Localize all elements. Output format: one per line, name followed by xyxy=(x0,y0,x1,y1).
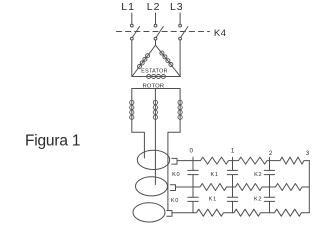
contactor K4 pole 1 blade xyxy=(133,27,140,38)
wire L2 top lead xyxy=(155,13,157,24)
rotor winding phase 3 xyxy=(178,89,182,133)
brush 1 xyxy=(172,158,177,164)
rotor top bar xyxy=(132,88,180,90)
contact K2 (upper) xyxy=(264,170,274,174)
wire L2 to stator apex xyxy=(155,40,157,45)
contactor K4 pole 1 upper terminal xyxy=(130,24,133,27)
svg-text:K0: K0 xyxy=(172,172,180,178)
wire rotor phase 1 to slip ring 1 xyxy=(132,132,145,158)
contactor K4 pole 2 blade xyxy=(156,27,163,38)
brush 3 xyxy=(167,211,172,217)
node 2 bus xyxy=(269,157,271,213)
contactor K4 mechanical linkage (dashed) xyxy=(117,31,210,33)
svg-text:0: 0 xyxy=(189,147,193,154)
brush 2 xyxy=(170,185,175,191)
svg-text:K1: K1 xyxy=(209,197,217,203)
contact K0 (lower) xyxy=(188,197,198,201)
slip ring 2 xyxy=(136,177,168,196)
stator winding right (delta side) xyxy=(156,45,181,76)
slip ring 3 xyxy=(133,203,165,222)
wire L1 top lead xyxy=(131,13,133,24)
wire row 3 (slip ring 3 to node 3) xyxy=(172,209,309,216)
contact K1 (lower) xyxy=(227,197,237,201)
svg-text:L3: L3 xyxy=(170,1,184,13)
stator winding bottom (delta side) xyxy=(132,75,180,79)
contactor K4 pole 3 lower terminal xyxy=(179,37,182,40)
svg-text:K0: K0 xyxy=(171,198,179,204)
svg-text:2: 2 xyxy=(269,150,273,157)
wire row 1 (slip ring 1 to node 3) xyxy=(177,157,309,164)
contactor K4 pole 2 lower terminal xyxy=(154,37,157,40)
contactor K4 pole 1 lower terminal xyxy=(130,37,133,40)
contactor K4 pole 3 blade xyxy=(181,27,188,38)
node 3 shorting bar xyxy=(308,161,310,213)
node 1 bus xyxy=(232,157,234,213)
wire L3 top lead xyxy=(179,13,181,24)
svg-text:Figura 1: Figura 1 xyxy=(25,132,80,149)
wire rotor phase 3 to slip ring 3 xyxy=(168,132,180,210)
contact K0 (upper) xyxy=(188,170,198,174)
svg-text:L1: L1 xyxy=(121,1,135,13)
contactor K4 pole 3 upper terminal xyxy=(179,24,182,27)
node 0 bus xyxy=(192,157,194,213)
contact K2 (lower) xyxy=(264,197,274,201)
svg-text:ESTATOR: ESTATOR xyxy=(141,69,168,75)
svg-text:K1: K1 xyxy=(210,172,218,178)
svg-text:K4: K4 xyxy=(214,28,227,39)
wire row 2 (slip ring 2 to node 3) xyxy=(176,184,310,191)
rotor winding phase 2 xyxy=(153,89,157,185)
wire L3 to stator xyxy=(179,40,181,76)
svg-text:K2: K2 xyxy=(254,197,262,203)
contactor K4 pole 2 upper terminal xyxy=(154,24,157,27)
slip ring 1 xyxy=(137,150,169,169)
stator winding left (delta side) xyxy=(132,45,156,76)
rotor winding phase 1 xyxy=(130,89,134,133)
svg-text:3: 3 xyxy=(306,150,310,157)
svg-text:1: 1 xyxy=(231,147,235,154)
contact K1 (upper) xyxy=(227,170,237,174)
svg-text:K2: K2 xyxy=(254,172,262,178)
wire L1 to stator xyxy=(131,40,133,76)
svg-text:L2: L2 xyxy=(147,1,161,13)
